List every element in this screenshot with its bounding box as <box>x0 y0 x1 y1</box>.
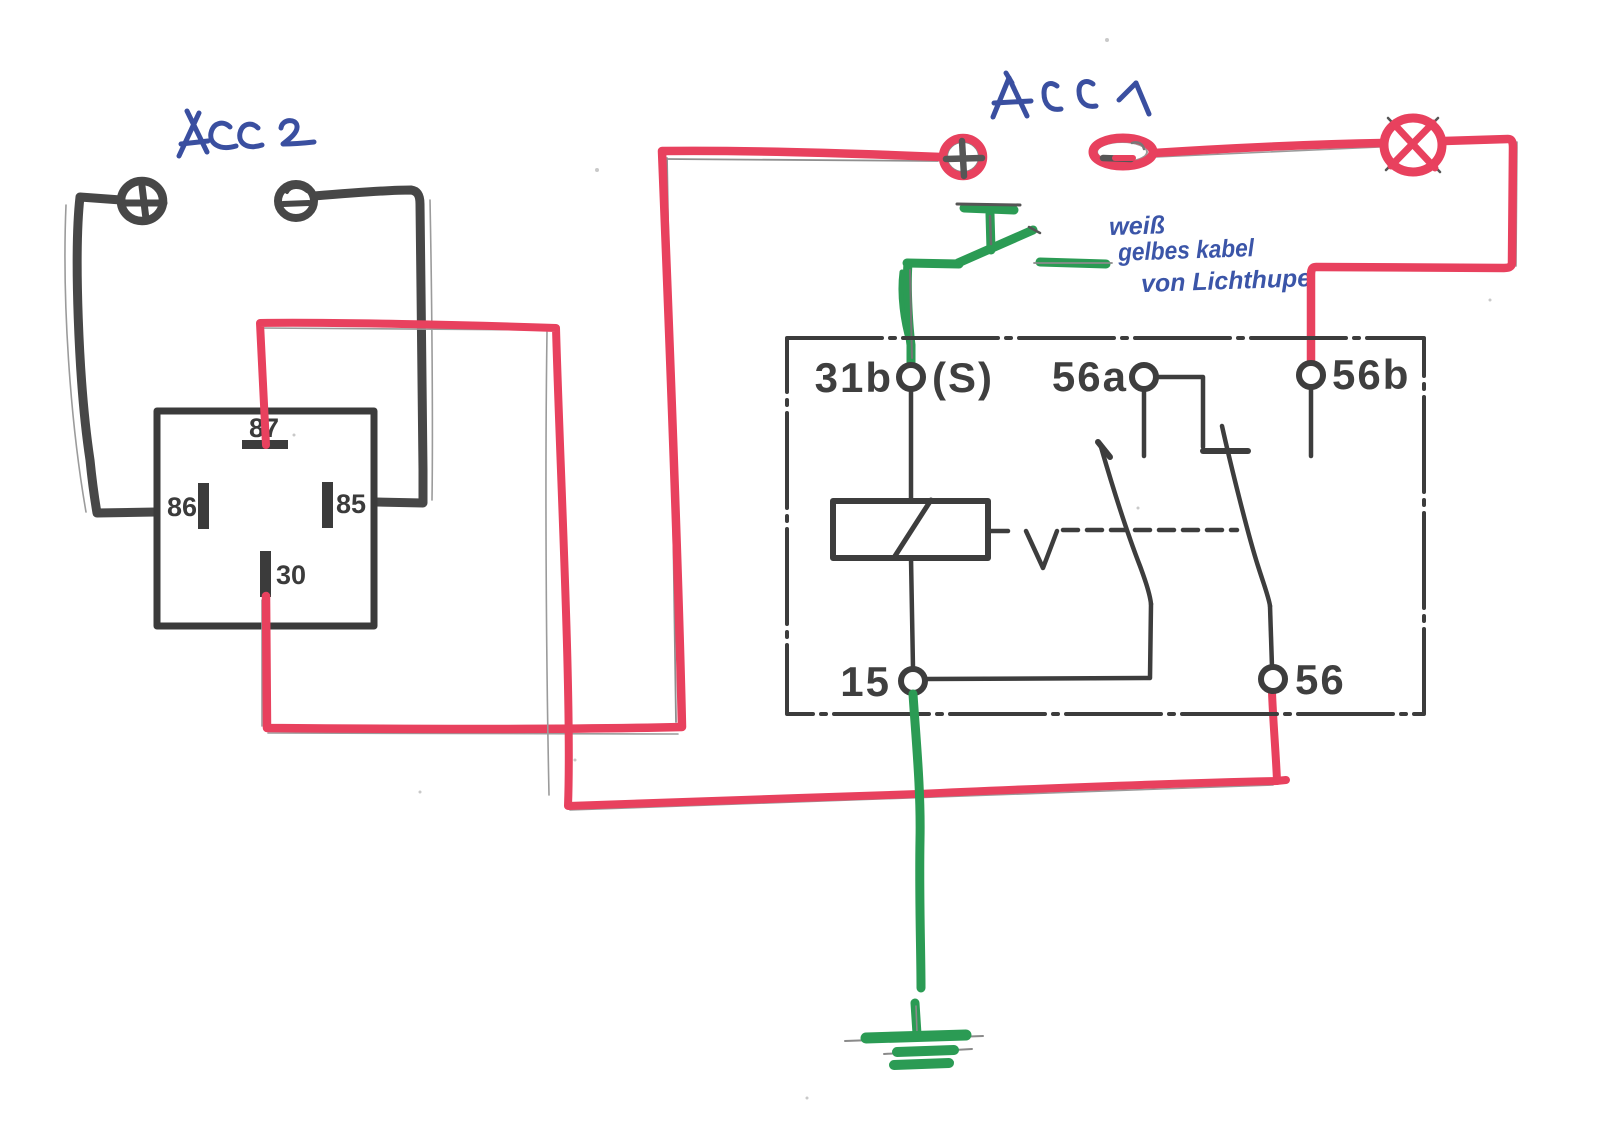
relay K1 pin 30 blade <box>260 551 271 597</box>
svg-text:(S): (S) <box>932 354 994 401</box>
push button S1 (green, momentary) <box>907 208 1033 264</box>
pin 15 (circle) <box>901 669 925 693</box>
wire: printed stub below pin 56b <box>1309 388 1314 456</box>
wire: green from push button down to switch pin 31b <box>907 263 911 366</box>
pin 31b (circle) <box>899 365 923 389</box>
wire: green from pin 15 down to ground <box>913 694 921 988</box>
relay coil (printed rectangle with diagonal) <box>833 501 988 558</box>
wire: dark from terminal A1 down to relay pin 86 <box>77 197 156 513</box>
mechanical link (dashed) with spring V notch <box>988 529 1008 534</box>
lamp X1 (red circle with cross) <box>1384 118 1442 172</box>
switch box outline (printed, dash-dot) <box>787 338 1424 714</box>
wire: printed from pin 31b down to relay coil <box>909 390 914 501</box>
fixed contact bar with end nub <box>1203 448 1248 454</box>
wire: dark from terminal A2 down to relay pin 85 <box>314 190 423 503</box>
label ACC 1 (handwritten blue) <box>993 73 1149 117</box>
wire: red from lamp to switch pin 56b <box>1311 139 1513 362</box>
battery terminal + (red ring with dark cross) <box>943 138 983 176</box>
svg-text:86: 86 <box>167 492 197 522</box>
pencil guide along A2 wire <box>430 200 432 500</box>
wire: red from battery minus terminal to lamp <box>1154 143 1382 153</box>
pencil guide along red supply rail <box>665 159 938 161</box>
note: weiss gelbes kabel von Lichthupe (blue handwriting) <box>1109 206 1312 299</box>
svg-text:85: 85 <box>336 489 366 519</box>
pencil guide along red wire from minus terminal to lamp <box>1156 147 1380 157</box>
switch contact blade 1 <box>1101 447 1151 604</box>
pencil guides along red wire from switch pin 56 to relay pin 87 <box>1272 695 1276 779</box>
svg-text:30: 30 <box>276 560 306 590</box>
svg-text:31b: 31b <box>815 354 893 401</box>
faint scan speckles <box>293 38 1492 1100</box>
svg-text:von Lichthupe: von Lichthupe <box>1141 264 1312 298</box>
pencil guide along A1 wire <box>65 205 86 512</box>
svg-text:56b: 56b <box>1332 351 1410 398</box>
pencil guide along red wire lamp to 56b <box>1311 142 1517 360</box>
wire: red from switch pin 56 down, across, up and over to relay pin 87 <box>260 323 1277 806</box>
pencil guide along green ground wire <box>915 697 919 985</box>
wire: printed from pin 56a right and down to fixed contact <box>1157 377 1203 447</box>
svg-text:gelbes kabel: gelbes kabel <box>1117 234 1256 267</box>
relay K1 pin 87 blade <box>242 440 288 449</box>
switch contact blade 2 <box>1222 426 1270 606</box>
relay K1 pin 86 blade <box>198 483 209 529</box>
label ACC 2 (handwritten blue) <box>179 111 314 156</box>
wire: printed from coil down to pin 15 <box>911 558 913 668</box>
wire: printed stub below pin 56a <box>1142 390 1147 456</box>
pencil guide above push button bar <box>957 204 1020 205</box>
svg-text:56: 56 <box>1295 656 1346 703</box>
wire: blade 2 down to pin 56 <box>1270 606 1272 667</box>
relay K1 socket outline <box>157 411 374 626</box>
accessory terminal A2 (ACC2 right, dark circle with minus) <box>278 184 314 218</box>
ground symbol (green with pencil guides) <box>845 1003 983 1067</box>
wire: blade 1 down and across to pin 15 <box>926 604 1151 679</box>
wire: red supply rail from battery + terminal down and across to relay pin 30 <box>266 151 941 729</box>
battery terminal minus (red ellipse with dark minus) <box>1093 138 1153 166</box>
pin 56b (circle) <box>1299 363 1323 387</box>
wire: green stub to Lichthupe cable (open end) <box>1040 262 1106 264</box>
svg-text:15: 15 <box>840 658 891 705</box>
pin 56 (circle) <box>1261 667 1285 691</box>
svg-text:56a: 56a <box>1052 353 1128 400</box>
pencil guide through green stub <box>1034 262 1112 264</box>
pin 56a (circle) <box>1132 365 1156 389</box>
relay K1 pin 85 blade <box>322 482 333 528</box>
accessory terminal A1 (ACC2 left, dark circle with cross) <box>121 181 164 221</box>
